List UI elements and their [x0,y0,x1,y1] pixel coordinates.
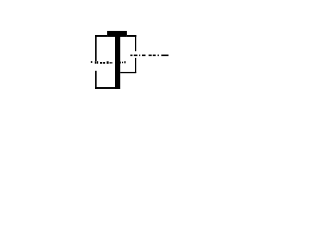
left body outline left edge upper segment [95,35,97,61]
left body outline bottom line [95,87,115,89]
right centerline dash 5 [153,55,156,57]
left centerline blob lobe B [97,61,99,64]
left centerline blob lobe A under edge end [95,61,96,64]
left centerline square [107,61,109,64]
right centerline dot 2 [158,55,159,57]
right body outline bottom line [120,72,136,73]
right body outline right edge upper segment [135,35,136,51]
right centerline dash 6 [161,55,168,57]
filled vertical bar (T stem) [115,31,120,89]
right centerline dot 1 [139,55,140,57]
left body outline top line [95,35,107,37]
left centerline dash at bar right [119,62,122,64]
left centerline dash 1 [100,62,102,64]
right centerline dash 1 [130,55,132,57]
right body outline right edge lower segment [135,58,136,73]
left centerline dot 1 [91,61,92,63]
left centerline square 2 [124,61,125,63]
filled cap bar (top of T section) [107,31,127,37]
right centerline dash 4 [149,55,152,57]
left centerline dot 4 [122,62,123,64]
left centerline dot 2 [110,62,111,64]
right centerline dash 2 [134,55,138,57]
left centerline dash 2 [103,62,105,64]
left body outline left edge lower segment [95,71,97,89]
left centerline dot 3 [111,62,112,64]
right centerline dash 3 [142,55,146,57]
right body outline top line [127,35,136,37]
